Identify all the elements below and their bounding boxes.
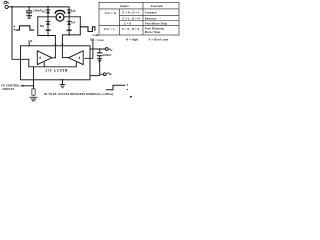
svg-text:C = D: C = D — [124, 21, 132, 25]
svg-text:100nF: 100nF — [33, 8, 42, 12]
svg-text:Vin = H: Vin = H — [105, 11, 117, 15]
svg-text:Reverse: Reverse — [145, 16, 157, 20]
svg-text:C = H ; D = L: C = H ; D = L — [122, 11, 140, 15]
svg-text:D4: D4 — [71, 20, 75, 24]
svg-text:C = X ; D = X: C = X ; D = X — [122, 27, 140, 31]
svg-text:Fast Motor Stop: Fast Motor Stop — [145, 21, 168, 25]
svg-text:100nF: 100nF — [102, 53, 111, 57]
svg-text:D1: D1 — [42, 10, 46, 14]
svg-text:Q4: Q4 — [28, 39, 32, 43]
svg-text:3: 3 — [39, 56, 41, 60]
svg-text:X = Don't care: X = Don't care — [149, 38, 169, 42]
svg-text:Motor Stop: Motor Stop — [145, 30, 161, 34]
svg-text:H = High: H = High — [126, 38, 138, 42]
svg-text:L = Low: L = Low — [93, 38, 105, 42]
svg-text:Q4: Q4 — [90, 37, 94, 41]
svg-text:C = L ; D = H: C = L ; D = H — [122, 16, 140, 20]
svg-text:CIRCUIT: CIRCUIT — [2, 87, 14, 91]
svg-text:Function: Function — [151, 4, 164, 8]
svg-text:4: 4 — [78, 56, 80, 60]
svg-text:Vin = L: Vin = L — [104, 27, 115, 31]
svg-text:D1 TO D4: 1N FAST RECOVERY DIO: D1 TO D4: 1N FAST RECOVERY DIODES (trr ≤… — [44, 92, 113, 96]
svg-text:D2: D2 — [40, 24, 44, 28]
svg-text:Forward: Forward — [145, 11, 157, 15]
svg-text:D3: D3 — [71, 9, 75, 13]
svg-text:Inputs: Inputs — [120, 4, 129, 8]
svg-text:1/2 L293B: 1/2 L293B — [45, 69, 68, 73]
